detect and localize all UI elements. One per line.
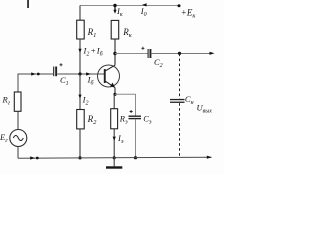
wire Re to rail	[113, 129, 115, 158]
current arrow I2	[78, 95, 81, 99]
label I2	[82, 94, 89, 106]
current arrow input	[31, 72, 39, 75]
label Rg	[2, 95, 11, 107]
node load junction top	[178, 52, 181, 55]
svg-text:C2: C2	[154, 57, 163, 69]
wire R1 top	[79, 6, 81, 21]
label Ce	[143, 113, 152, 125]
wire collector	[114, 39, 116, 65]
wire Ce bottom	[135, 119, 137, 157]
resistor R1	[77, 20, 85, 39]
svg-text:I2: I2	[82, 94, 89, 106]
svg-text:Rэ: Rэ	[119, 113, 128, 125]
current arrow Ie	[113, 137, 116, 141]
node collector-rail junction	[113, 4, 116, 7]
capacitor Cn	[170, 99, 185, 103]
svg-text:Iк: Iк	[116, 6, 123, 18]
label Cn	[185, 94, 194, 106]
current arrow Ib	[86, 72, 91, 75]
node Ce rail junction	[134, 156, 137, 159]
label R1	[87, 27, 97, 39]
source Eg	[10, 130, 27, 147]
resistor Re	[111, 109, 118, 129]
svg-text:Ег: Ег	[0, 132, 8, 144]
wire top supply rail	[80, 5, 179, 7]
wire ground rail	[18, 157, 212, 158]
wire output to C2	[115, 53, 148, 55]
ground rail arrow mark	[30, 156, 38, 159]
label C1	[60, 75, 69, 87]
capacitor Ce	[129, 110, 142, 119]
label Rk	[122, 27, 133, 39]
current arrow I0 (left along rail)	[142, 3, 147, 6]
node base divider junction	[78, 72, 81, 75]
label Ib	[87, 75, 95, 87]
resistor R2	[77, 110, 85, 129]
svg-text:Uвых: Uвых	[197, 103, 213, 115]
node emitter rail junction	[113, 156, 116, 159]
wire base	[57, 73, 104, 75]
capacitor C2	[141, 47, 151, 58]
node emitter junction	[113, 93, 116, 96]
label Uout	[197, 103, 213, 115]
svg-text:Iэ: Iэ	[117, 133, 124, 145]
output arrow bottom	[207, 156, 212, 159]
resistor Rk	[111, 20, 119, 39]
svg-text:+Ек: +Ек	[181, 7, 197, 19]
wire emitter	[114, 88, 116, 95]
svg-text:Rг: Rг	[2, 95, 11, 107]
node R2 rail junction	[78, 156, 81, 159]
wire C2 to output terminal	[152, 53, 212, 55]
svg-text:Cн: Cн	[185, 94, 194, 106]
label Ie	[117, 133, 124, 145]
wire source to rail	[17, 147, 19, 159]
current arrow I2+Ib	[78, 49, 81, 53]
wire base node to R2	[79, 74, 81, 110]
wire emitter to Re	[113, 94, 115, 108]
crop stub top-left	[27, 0, 29, 8]
current arrow Ik	[113, 6, 116, 14]
label +Ek	[181, 7, 197, 19]
resistor Rg	[14, 92, 21, 111]
svg-text:R1: R1	[87, 27, 97, 39]
label C2	[154, 57, 163, 69]
node supply terminal	[178, 4, 181, 7]
ground	[106, 158, 122, 169]
wire input segment	[18, 74, 53, 92]
dashed load line	[179, 54, 181, 158]
capacitor C1	[54, 63, 63, 76]
transistor VT1	[98, 65, 120, 88]
label I0	[140, 6, 147, 18]
label I2+Ib	[83, 46, 104, 58]
wire Ce branch	[115, 94, 136, 115]
svg-text:Cэ: Cэ	[143, 113, 152, 125]
svg-text:Iб: Iб	[87, 75, 95, 87]
svg-text:Rк: Rк	[122, 27, 133, 39]
label Eg	[0, 132, 8, 144]
label R2	[87, 114, 98, 126]
svg-text:I2+Iб: I2+Iб	[83, 46, 104, 58]
node collector output junction	[113, 52, 116, 55]
svg-text:R2: R2	[87, 114, 98, 126]
svg-text:C1: C1	[60, 75, 69, 87]
label Re	[119, 113, 128, 125]
output arrow top	[210, 52, 215, 55]
svg-text:I0: I0	[140, 6, 147, 18]
wire Rg to source	[17, 111, 19, 129]
wire R2 bottom	[79, 129, 81, 158]
label Ik	[116, 6, 123, 18]
wire R1 bottom to base node	[79, 39, 81, 74]
